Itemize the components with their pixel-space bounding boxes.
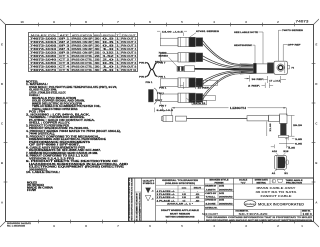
svg-text:74073-1010: 74073-1010 [30,48,58,51]
svg-text:PIN 2: PIN 2 [139,62,147,64]
dimension 21.00 [267,122,272,137]
label A18 [272,150,279,155]
svg-text:0.152: 0.152 [103,52,115,54]
svg-text:SYMBOLS: SYMBOLS [143,183,155,185]
svg-text:CT 1: CT 1 [59,56,70,58]
svg-text:APP: APP [60,34,70,37]
svg-text:SEE CHART: SEE CHART [202,212,218,216]
svg-text:SCALE: SCALE [239,179,248,182]
svg-text:6.40+/-0.5: 6.40+/-0.5 [157,109,175,112]
svg-text:IPASS ON CTRL: IPASS ON CTRL [72,65,94,68]
svg-text:8P 1: 8P 1 [59,38,71,40]
dimension 17 +/-0.5 [264,76,286,83]
svg-text:5. PRODUCT CONFORMS TO THE MEC: 5. PRODUCT CONFORMS TO THE MECHANICAL, [26,135,100,138]
svg-text:CT 4: CT 4 [59,65,70,68]
svg-text:CT 5: CT 5 [59,70,70,72]
svg-text:A: A [315,201,317,205]
svg-text:8P 3: 8P 3 [59,45,71,47]
svg-text:LATCH : STAINLESS STEEL ALLOY.: LATCH : STAINLESS STEEL ALLOY. [29,91,66,94]
svg-text:SEE LABLE NOTE: SEE LABLE NOTE [234,31,259,34]
svg-text:P/N OUT 7: P/N OUT 7 [121,59,137,61]
svg-text:FANOUT CABLE: FANOUT CABLE [261,194,292,198]
right-angle connector side view [269,114,289,138]
svg-text:THIS DRAWING CONTAINS INFORMAT: THIS DRAWING CONTAINS INFORMATION THAT I… [206,216,313,219]
label SEE LABLE NOTE [234,31,263,64]
svg-text:36 REF.: 36 REF. [252,79,265,81]
svg-text:CHK'D BY: CHK'D BY [205,193,217,195]
revision strip [128,179,141,221]
svg-text:D: D [1,82,3,86]
side view cable [162,116,269,122]
label A1 [272,170,277,175]
svg-text:P/N OUT 8: P/N OUT 8 [121,63,137,65]
wire pair from J3 [203,70,254,84]
svg-text:CT 3: CT 3 [59,63,70,65]
label HEATSHRINK [234,44,255,63]
svg-text:74073-1020: 74073-1020 [30,51,58,54]
svg-text:ANGULAR +/- 1 °: ANGULAR +/- 1 ° [167,203,193,206]
title block frame [129,178,314,221]
svg-text:P/N OUT 5: P/N OUT 5 [121,52,137,54]
draft note box [161,209,200,218]
svg-text:DRAWN BY: DRAWN BY [135,192,138,202]
svg-text:2002/95(EC).: 2002/95(EC). [29,169,48,171]
svg-text:10. LABLE DETAIL:: 10. LABLE DETAIL: [26,171,60,174]
dimension 29.20 [287,116,303,137]
svg-text:HAZARDOUS SUBSTANCES IN ELECTR: HAZARDOUS SUBSTANCES IN ELECTRICAL AND [29,163,129,166]
pin labels at connectors [146,62,166,96]
wire pair from J2 [203,56,254,69]
svg-text:.010: .010 [195,194,199,196]
svg-text:FF/W: FF/W [27,190,37,192]
svg-text:NOTES:: NOTES: [26,81,38,83]
svg-text:QUALITY: QUALITY [143,179,155,182]
svg-text:2006/06/03: 2006/06/03 [219,203,233,205]
molex logo and company name [205,201,314,210]
svg-text:APPLICATION: APPLICATION [72,34,93,37]
svg-text:1. MATERIAL:: 1. MATERIAL: [26,83,48,86]
label 67491 SERIES [190,30,220,37]
svg-text:PRODUCT SPECIFICATION: PS-7919: PRODUCT SPECIFICATION: PS-79190-001. [29,127,89,130]
svg-text:8P 5: 8P 5 [59,52,71,54]
label 74073 SERIES [279,29,304,61]
dimension 6.40 +/-0.5 [155,108,175,113]
svg-text:DRAFT WHERE APPLICABLE: DRAFT WHERE APPLICABLE [161,209,200,212]
third angle projection symbol [272,179,304,185]
svg-text:DIMENSIONING AND ELECTRICAL PE: DIMENSIONING AND ELECTRICAL PERFORMANCE [29,138,107,141]
drawn/checked rows [205,184,234,209]
svg-text:PIN 7: PIN 7 [155,62,163,64]
SATA connector J3 [160,78,202,87]
label GPP REF [283,45,301,61]
wire pair from J4 [203,72,254,99]
svg-text:METRIC: METRIC [257,182,267,184]
svg-text:TWIN-AX SHIELD IS ALUMINIZED P: TWIN-AX SHIELD IS ALUMINIZED POLYESTER F… [32,105,101,108]
svg-text:P/N OUT 9: P/N OUT 9 [121,66,137,68]
svg-text:P/N OUT 10: P/N OUT 10 [121,70,137,72]
notes text block [26,81,129,192]
svg-text:1 PLACE +/-: 1 PLACE +/- [157,199,176,202]
label B1 [284,170,290,175]
parts table [29,33,138,72]
svg-text:P/N OUT 4: P/N OUT 4 [121,48,137,51]
svg-text:14.00 +/-0.5: 14.00 +/-0.5 [162,30,184,33]
svg-text:SD-74073-320: SD-74073-320 [239,212,268,216]
svg-text:2. HOUSING : LCP, 94V-0, BLACK: 2. HOUSING : LCP, 94V-0, BLACK. [26,113,91,116]
svg-text:molex: molex [245,202,255,206]
svg-text:PERFORMANCE REQUIREMENTS: PERFORMANCE REQUIREMENTS [29,141,91,144]
svg-text:2006/06/02: 2006/06/02 [219,190,233,192]
heatshrink band [254,63,257,73]
svg-text:IPASS ON 8P: IPASS ON 8P [72,41,94,44]
svg-text:74073: 74073 [296,19,309,23]
svg-text:IPASS ON 8P: IPASS ON 8P [72,48,94,51]
svg-text:OVERALL SHIELD IS TINNED COPPE: OVERALL SHIELD IS TINNED COPPER BRAID. [32,108,78,111]
svg-text:10 REF.: 10 REF. [198,88,211,90]
svg-text:IPASS ON 8P: IPASS ON 8P [72,51,94,54]
svg-text:17 +/-0.5: 17 +/-0.5 [269,80,281,82]
svg-text:P1 NO 2010-0629-0001 DOC TYPE: P1 NO 2010-0629-0001 DOC TYPE PSD DOC PA… [128,179,131,221]
svg-text:3 PLACES +/-: 3 PLACES +/- [157,193,176,196]
svg-text:C: C [315,122,317,126]
svg-text:ELECTRONIC EQUIPMENT (ROHS) DI: ELECTRONIC EQUIPMENT (ROHS) DIRECTIVE [29,167,125,169]
sleeve on J4 cable [204,96,216,101]
svg-text:PROJECTION: PROJECTION [286,183,303,185]
svg-text:PIN 1: PIN 1 [146,82,154,84]
svg-text:IPASS ON CTRL: IPASS ON CTRL [72,55,94,58]
svg-text:CHK'D BY: CHK'D BY [136,202,138,211]
dimension 6.95 [279,138,303,146]
svg-text:1.52: 1.52 [103,56,116,58]
svg-text:SIGNALS PVC INSULATION: SIGNALS PVC INSULATION [32,97,76,100]
label 79490 SERIES [159,52,178,67]
svg-text:OF SFF-8086 / SFF-8087.: OF SFF-8086 / SFF-8087. [29,145,81,147]
svg-text:LENGTH: LENGTH [230,107,246,110]
svg-text:8P 4: 8P 4 [59,48,71,51]
svg-text:WITHIN DIMENSIONS: WITHIN DIMENSIONS [166,216,196,218]
svg-text:INNER DIELECTRIC IS POLYOLEFIN: INNER DIELECTRIC IS POLYOLEFIN [32,103,82,105]
svg-text:3. PRODUCT TO PERFORM PER: 3. PRODUCT TO PERFORM PER [26,125,69,127]
svg-text:74073-1040: 74073-1040 [30,58,58,61]
general tolerances box [156,179,205,206]
svg-text:GLASS FILLED 30%.: GLASS FILLED 30%. [29,89,57,92]
svg-text:APPR'D: APPR'D [138,202,141,211]
svg-text:S.DONE: S.DONE [206,203,217,205]
svg-text:P/N OUT 3: P/N OUT 3 [121,45,137,47]
svg-text:.020: .020 [195,200,199,202]
svg-text:THIRD ANGLE: THIRD ANGLE [286,179,304,182]
svg-text:T.HALL: T.HALL [206,196,217,199]
label PIN 7 side view [155,100,164,112]
iPass connector P4 body [274,61,295,74]
svg-text:8. PINOUT CONFORMS TO SAS 1.1: 8. PINOUT CONFORMS TO SAS 1.1 9.XX [26,155,89,158]
svg-text:B: B [1,161,3,165]
svg-text:VERSION 5.2.4.1.3.3 FR3: VERSION 5.2.4.1.3.3 FR3 [29,157,75,160]
svg-text:P/N OUT 2: P/N OUT 2 [121,42,137,44]
svg-text:74073-1050: 74073-1050 [30,62,58,65]
svg-text:29.20: 29.20 [293,125,303,127]
svg-text:MOLEX P/N: MOLEX P/N [31,35,57,37]
svg-text:8P 2: 8P 2 [59,42,71,44]
svg-text:PIN 7: PIN 7 [159,105,167,107]
svg-text:PIN 1: PIN 1 [157,93,165,95]
svg-text:74073-1008: 74073-1008 [30,44,58,47]
label B18 [283,151,289,155]
svg-text:INCORPORATED AND SHOULD NOT BE: INCORPORATED AND SHOULD NOT BE USED WITH… [206,219,313,222]
svg-text:2 PLACES +/-: 2 PLACES +/- [157,196,176,199]
svg-text:MOLEX INCORPORATED: MOLEX INCORPORATED [258,203,305,207]
dimension 14.00 +/-0.5 [157,30,187,38]
svg-text:HEATSHRINK: HEATSHRINK [234,44,253,47]
svg-text:IPASS ON 8P: IPASS ON 8P [72,44,94,47]
SATA connector J1 [160,37,202,46]
svg-text:74073-1070: 74073-1070 [30,69,58,72]
cable bunch wedge [240,63,254,74]
SATA connector J4 [160,93,202,102]
svg-text:74073-1000: 74073-1000 [30,37,58,40]
SATA connector J2 [160,53,202,62]
svg-text:P/N OUT 1: P/N OUT 1 [121,38,137,40]
svg-text:J.SMITH: J.SMITH [206,190,217,192]
svg-text:PLATING : GOLD ON CONTACT AREA: PLATING : GOLD ON CONTACT AREA. [29,119,96,122]
svg-text:NO. 1 2010/03/26: NO. 1 2010/03/26 [7,226,26,228]
svg-text:4 PLACES +/-: 4 PLACES +/- [157,190,176,193]
svg-text:IPASS ON CTRL: IPASS ON CTRL [72,58,94,61]
mating face view [274,155,288,169]
proprietary fine print [206,216,313,222]
svg-text:CT 2: CT 2 [59,59,70,61]
svg-text:SERIES: SERIES [159,55,169,57]
svg-text:21.00: 21.00 [270,122,272,131]
wire crossover detail [139,62,166,78]
svg-text:A: A [1,201,3,205]
dimension 36 REF [244,76,264,82]
svg-text:74046 (VERTICAL).: 74046 (VERTICAL). [29,133,55,136]
quality symbols box [143,179,155,201]
title block right top row [205,178,314,184]
svg-text:SHEET NO.: SHEET NO. [302,210,311,212]
svg-text:(UNLESS SPECIFIED): (UNLESS SPECIFIED) [165,183,195,185]
wire pair from J1 [203,41,254,66]
svg-text:67491 SERIES: 67491 SERIES [196,30,220,33]
svg-text:10: 10 [20,20,24,24]
svg-text:AWG: AWG [94,34,100,37]
svg-text:P/N OUT: P/N OUT [122,35,137,37]
svg-text:.015: .015 [195,197,199,199]
sideband cable fitting 79490 [177,66,254,72]
svg-text:C: C [1,122,3,126]
svg-text:OVER MOLD : POLYBUTYLENE TEREP: OVER MOLD : POLYBUTYLENE TEREPHTHALATE (… [29,86,117,89]
material / document / sheet row [202,210,314,216]
svg-text:7. MINIMUM RECOMMENDED BEND RA: 7. MINIMUM RECOMMENDED BEND RADIUS 28 MM… [26,152,98,155]
svg-text:74073-1004: 74073-1004 [30,41,58,44]
svg-text:CABLE :: CABLE : [29,94,40,97]
svg-text:6. CABLE ASSY REQUIREMENTS PER: 6. CABLE ASSY REQUIREMENTS PER [26,146,85,149]
label SATA 15 flag [186,98,206,105]
svg-text:0.5: 0.5 [183,200,186,202]
svg-text:PIN 3: PIN 3 [139,76,147,78]
svg-text:74073-1030: 74073-1030 [30,55,58,58]
svg-text:SOLID COPPER SIGNAL AND DRAIN.: SOLID COPPER SIGNAL AND DRAIN. [32,100,85,103]
sleeve on J3 cable [204,80,218,85]
braid section [256,64,267,73]
svg-text:GPP REF: GPP REF [288,45,302,47]
svg-text:SATA 15: SATA 15 [193,102,206,105]
plot footer text [7,222,32,227]
svg-text:B: B [315,161,317,165]
svg-text:K.SAWADA: K.SAWADA [138,192,141,202]
svg-text:0.25: 0.25 [182,194,186,196]
svg-text:P/N OUT 6: P/N OUT 6 [121,56,137,58]
svg-text:74073-1060: 74073-1060 [30,65,58,68]
svg-text:IPASS ON 8P: IPASS ON 8P [72,37,94,40]
LENGTH dimension [172,107,286,116]
svg-text:E: E [1,43,3,47]
svg-text:GENERAL TOLERANCES: GENERAL TOLERANCES [162,179,199,182]
svg-text:PIN 1: PIN 1 [159,88,167,90]
dimension 10 REF [180,82,210,90]
svg-text:79490: 79490 [159,52,168,55]
svg-text:IPASS ON CTRL: IPASS ON CTRL [72,69,94,72]
svg-text:PIN 7: PIN 7 [155,100,163,102]
svg-text:BROKEN STYLE: BROKEN STYLE [210,180,230,182]
svg-text:TERMINAL : PHOSPHOR BRONZE.: TERMINAL : PHOSPHOR BRONZE. [29,116,85,119]
drawing title text [234,186,314,199]
svg-text:4. PRODUCT SERIES 74043 MATES: 4. PRODUCT SERIES 74043 MATES TO 75703 (… [26,130,121,133]
dimension 4.35 [271,145,296,150]
svg-text:D: D [315,82,317,86]
svg-text:2006/06/02: 2006/06/02 [219,197,233,199]
second band [268,63,274,73]
svg-text:74073 SERIES: 74073 SERIES [282,29,304,32]
svg-text:1 OF 3: 1 OF 3 [303,214,313,216]
dimension 2 REF [248,83,273,89]
svg-text:LENGTH(A): LENGTH(A) [102,34,115,37]
svg-text:REQUIREMENTS OF SFF-8086 AND S: REQUIREMENTS OF SFF-8086 AND SFF-8087. [29,149,101,152]
svg-text:PER/IN: PER/IN [215,182,225,184]
dimension 3.85 [285,138,303,142]
svg-text:0.38: 0.38 [182,197,186,199]
svg-text:SHELL : COPPER ALLOY.: SHELL : COPPER ALLOY. [29,122,71,125]
svg-text:E: E [315,43,317,47]
svg-text:IPASS ON CTRL: IPASS ON CTRL [72,62,94,65]
svg-text:MUST REMAIN: MUST REMAIN [170,212,191,215]
svg-text:PIN 1: PIN 1 [158,76,166,78]
svg-text:2 REF.: 2 REF. [248,85,261,87]
svg-text:9. PRODUCT MEETS THE RESTRICTI: 9. PRODUCT MEETS THE RESTRICTION OF [26,161,119,163]
SATA pin-face detail [149,88,168,108]
svg-text:P/N 74073XXXX: P/N 74073XXXX [27,184,44,187]
svg-text:PCB : FR4: PCB : FR4 [29,111,46,114]
